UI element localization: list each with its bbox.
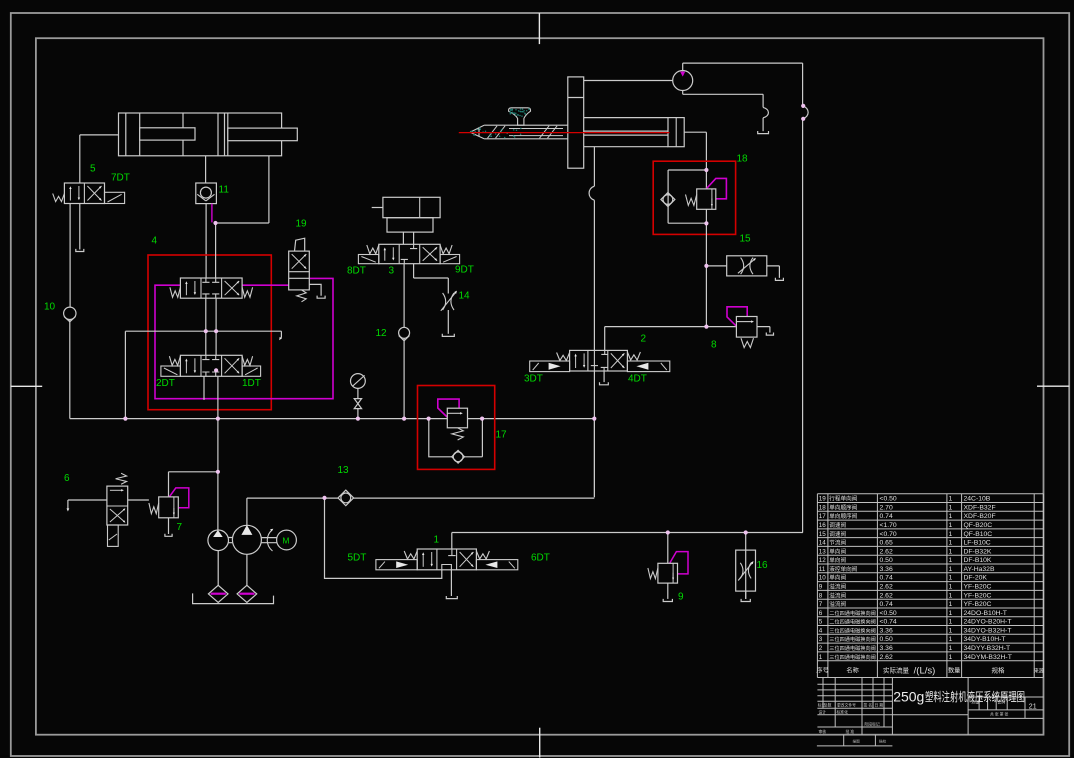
svg-text:三位四通电磁换向阀: 三位四通电磁换向阀 [829,644,876,652]
valve 4 upper left spring [170,287,181,297]
relief valve 9 body [658,563,678,583]
svg-text:实际流量: 实际流量 [883,666,910,675]
tank symbol below valve 5 [76,249,84,252]
svg-text:1: 1 [949,540,953,547]
valve 1 right spring [476,551,489,559]
wire through component 18 [705,170,707,266]
svg-text:7: 7 [819,601,823,608]
wire cylinder right port down [216,156,269,223]
svg-text:8: 8 [711,340,717,351]
relief valve 7 spring [149,503,159,514]
ejector cylinder body [383,197,440,217]
valve 3 solenoid 8DT tab [358,255,378,264]
svg-text:审核: 审核 [819,729,827,734]
svg-text:描校: 描校 [879,739,887,744]
relief valve 8 pilot line (magenta) [727,307,747,326]
svg-text:14: 14 [459,291,471,302]
oil motor drain to tank [683,91,763,108]
ejector cylinder rod [372,207,383,209]
svg-text:YF-B20C: YF-B20C [964,601,992,608]
svg-text:3.36: 3.36 [880,566,893,573]
svg-text:1: 1 [949,636,953,643]
svg-text:AY-Ha32B: AY-Ha32B [964,566,995,573]
valve 6 solenoid tab [108,525,119,546]
svg-text:1: 1 [819,654,823,661]
svg-text:XDF-B32F: XDF-B32F [964,504,996,511]
wire check valve 11 to valve 4 [205,204,207,278]
svg-text:更改文件号: 更改文件号 [837,702,856,707]
centerline tick right [1037,385,1069,387]
wire pilot cross line [125,331,281,418]
pump 2 (large) [232,525,261,554]
svg-text:7: 7 [177,522,183,533]
valve 4 lower solenoid 2DT tab [161,366,181,376]
centerline tick bottom [539,728,541,758]
screw flight hatching [488,126,498,138]
svg-text:比例: 比例 [998,700,1006,705]
wire valve 2 main line down [593,371,595,497]
valve 5 spring [53,194,65,202]
svg-text:1: 1 [949,619,953,626]
svg-text:1: 1 [434,535,440,546]
valve 2 right spring [627,352,640,360]
svg-text:阶段标记: 阶段标记 [865,722,880,727]
svg-text:液控单向阀: 液控单向阀 [829,565,857,573]
relief valve 17 pilot line (magenta) [438,399,459,417]
svg-text:日 期: 日 期 [875,702,884,707]
oil tank [193,593,274,603]
wire manifold to relief valve 8 [605,266,737,351]
svg-text:溢流阀: 溢流阀 [829,600,846,608]
svg-text:溢流阀: 溢流阀 [829,591,846,599]
svg-text:0.74: 0.74 [880,575,893,582]
relief valve 7 supply wire [169,472,218,497]
svg-text:4: 4 [152,236,158,247]
svg-text:3: 3 [389,266,395,277]
injection cylinder body [584,118,668,147]
svg-text:标准化: 标准化 [837,709,849,714]
svg-text:24DYO-B20H-T: 24DYO-B20H-T [964,619,1012,626]
hopper [509,108,531,125]
wire valve 3 A port to check valve 12 [403,264,405,328]
svg-text:三位四通电磁换向阀: 三位四通电磁换向阀 [829,653,876,661]
svg-text:12: 12 [819,557,827,564]
svg-text:250g: 250g [893,689,924,705]
svg-text:DF-20K: DF-20K [964,575,988,582]
svg-text:2: 2 [819,645,823,652]
svg-text:1: 1 [949,592,953,599]
relief valve 8 body [736,317,757,338]
valve 6 right port wire [128,499,149,501]
svg-text:6: 6 [819,610,823,617]
svg-text:2.70: 2.70 [880,504,893,511]
gauge isolator valve [357,388,359,398]
relief valve 9 pilot line (magenta) [670,552,688,574]
svg-text:5: 5 [90,164,96,175]
svg-text:9: 9 [819,584,823,591]
pressure gauge [351,374,366,389]
svg-text:16: 16 [819,522,827,529]
red highlight box component 4 [148,255,271,410]
svg-text:9: 9 [678,592,684,603]
relief valve 9 drain [667,583,669,599]
parts list table [817,494,1043,661]
check valve 10 [64,307,76,319]
title block grid [817,678,1043,735]
svg-text:0.65: 0.65 [880,540,893,547]
wire manifold junction to throttle 16 [745,533,747,551]
svg-text:<0.74: <0.74 [880,619,897,626]
suction filter 1 [208,585,228,602]
valve 6 left port drain [68,500,107,509]
injection screw barrel top [484,124,568,126]
svg-text:<0.70: <0.70 [880,531,897,538]
svg-text:序号: 序号 [816,667,828,675]
svg-text:QF-B10C: QF-B10C [964,531,993,538]
wire valve 4 lower drain stub [203,376,205,400]
injection screw barrel bottom [484,138,568,140]
valve 3 body 34DY directional valve [379,244,440,263]
svg-text:节流阀: 节流阀 [829,539,846,547]
relief valve 17 spring [452,428,463,440]
valve 4 lower solenoid 1DT tab [242,366,261,376]
clamping cylinder piston rod left [140,128,195,140]
wire pump 2 pressure line [247,497,594,499]
relief valve 9 spring [648,568,658,579]
centerline tick top [538,13,540,44]
svg-text:6DT: 6DT [531,553,550,564]
svg-text:24DO-B10H-T: 24DO-B10H-T [964,610,1007,617]
svg-text:0.74: 0.74 [880,513,893,520]
relief valve 8 drain [757,327,770,333]
svg-text:规格: 规格 [992,666,1006,675]
wire branch to valve 1 A port [325,498,442,579]
svg-text:6: 6 [64,473,70,484]
injection nozzle tip [470,125,484,139]
pilot line check valve 11 (magenta) [211,204,213,223]
screw root lines [509,129,563,136]
wire injection cylinder to valve 2 [593,147,595,187]
svg-text:/(L/s): /(L/s) [914,666,936,677]
svg-text:二位四通电磁换向阀: 二位四通电磁换向阀 [829,609,876,617]
svg-text:12: 12 [376,328,388,339]
svg-text:4DT: 4DT [628,374,647,385]
wire valve 1 T drain [450,570,452,596]
valve 1 body 34DYY directional valve [417,549,476,570]
svg-text:YF-B20C: YF-B20C [964,592,992,599]
svg-text:YF-B20C: YF-B20C [964,584,992,591]
wire valve 4 upper to lower interconnect [206,223,216,355]
valve 5 body 24D solenoid valve [64,183,104,204]
electric motor M [277,530,297,550]
wire main pressure manifold [70,418,595,420]
svg-text:2.62: 2.62 [880,584,893,591]
svg-text:15: 15 [740,234,752,245]
svg-text:1: 1 [949,531,953,538]
svg-text:34DYY-B32H-T: 34DYY-B32H-T [964,645,1011,652]
svg-text:3.36: 3.36 [880,645,893,652]
svg-text:1: 1 [949,575,953,582]
oil motor for screw rotation [673,71,693,91]
valve 1 left spring [404,551,417,559]
svg-text:1: 1 [949,610,953,617]
svg-text:9DT: 9DT [455,265,474,276]
screw shaft lines [568,131,668,135]
svg-text:处数: 处数 [824,702,832,707]
svg-text:二位四通电磁换向阀: 二位四通电磁换向阀 [829,618,876,626]
valve 2 body 34DYY directional valve [570,350,628,371]
svg-text:XDF-B20F: XDF-B20F [964,513,996,520]
svg-text:1: 1 [949,522,953,529]
svg-text:17: 17 [496,430,508,441]
wire cylinder left port to valve 5 [80,135,119,183]
svg-text:1: 1 [949,601,953,608]
valve 19 solenoid tab [295,238,305,251]
svg-text:1: 1 [949,654,953,661]
injection cylinder end cap [668,118,684,147]
svg-text:10: 10 [819,575,827,582]
front platen [568,77,584,168]
svg-text:1: 1 [949,557,953,564]
valve 4 upper right spring [242,287,253,297]
valve 2 tank drain [603,371,605,382]
pump suction lines [218,551,247,586]
svg-text:2: 2 [641,334,647,345]
svg-text:调速阀: 调速阀 [829,521,846,529]
svg-text:34DYM-B32H-T: 34DYM-B32H-T [964,654,1012,661]
valve 3 solenoid 9DT tab [440,255,460,264]
red highlight box component 17 [418,386,495,470]
red highlight box component 18 [653,161,735,234]
svg-text:10: 10 [44,302,56,313]
svg-text:34DYO-B32H-T: 34DYO-B32H-T [964,627,1012,634]
svg-text:调速阀: 调速阀 [829,530,846,538]
svg-text:单向阀: 单向阀 [829,547,846,555]
wire block to valve 3 [403,232,413,244]
valve 2 left spring [557,353,570,361]
svg-text:16: 16 [757,560,769,571]
svg-text:QF-B20C: QF-B20C [964,522,993,529]
sequence valve 18 pilot line (magenta) [707,178,727,198]
svg-text:1: 1 [949,627,953,634]
sequence valve 18 spring [686,195,697,206]
relief valve 7 drain [168,518,170,534]
wire valve 3 B port to throttle 14 [414,264,449,294]
crossover arc on right riser [803,106,809,119]
valve 4 upper 34DYM main directional valve [180,278,242,298]
svg-text:11: 11 [819,566,826,573]
svg-text:2.62: 2.62 [880,654,893,661]
sequence valve 18 body [697,189,716,209]
valve 2 proportional solenoid 4DT tab [627,361,669,372]
svg-text:1: 1 [949,548,953,555]
svg-text:单向阀: 单向阀 [829,556,846,564]
svg-text:<0.50: <0.50 [880,610,897,617]
check valve in component 18 [661,193,675,207]
pump 2 pressure riser [246,498,248,525]
pilot check valve 11 box [196,183,217,204]
flow valve 15 drain [767,266,780,278]
svg-text:签 名: 签 名 [864,702,873,707]
relief valve 7 body [159,497,179,518]
svg-text:3DT: 3DT [524,374,543,385]
wire pump 1 pressure riser [217,419,219,530]
svg-text:1: 1 [949,496,953,503]
svg-text:三位四通电磁换向阀: 三位四通电磁换向阀 [829,626,876,634]
svg-text:1: 1 [949,566,953,573]
valve 3 left spring [367,245,379,254]
svg-text:8DT: 8DT [347,266,366,277]
svg-text:11: 11 [219,185,230,196]
svg-text:13: 13 [338,465,350,476]
junction dots [213,221,217,225]
pump 1 (small) [208,530,229,551]
svg-text:共 张 第 张: 共 张 第 张 [990,712,1009,717]
svg-text:1DT: 1DT [242,378,261,389]
svg-text:5: 5 [819,619,823,626]
svg-text:3.36: 3.36 [880,627,893,634]
check valve 12 [399,327,410,338]
wire end cap to component 18 [684,132,706,170]
svg-text:2DT: 2DT [156,378,175,389]
bottom strip marks [817,735,893,746]
svg-text:24C-10B: 24C-10B [964,496,991,503]
svg-text:8: 8 [819,592,823,599]
valve 6 spring top [116,473,127,484]
magenta manifold enclosure component 4 [155,278,333,398]
check valve 13 [338,490,354,506]
svg-text:0.50: 0.50 [880,557,893,564]
svg-text:18: 18 [819,504,827,511]
hopper granule speckles [515,109,517,111]
component 18 bypass wire [668,170,706,223]
svg-text:LF-B10C: LF-B10C [964,540,991,547]
svg-text:1: 1 [949,513,953,520]
valve 1 proportional solenoid 6DT tab [476,560,517,570]
valve 1 proportional solenoid 5DT tab [376,560,417,570]
wire platen to oil motor [584,80,673,82]
svg-text:21: 21 [1029,703,1037,710]
svg-text:13: 13 [819,548,827,555]
wire oil motor top to right riser [683,63,803,71]
valve 4 lower 34DYM directional valve [180,355,242,376]
wire check valve 10 down to pressure manifold [69,320,71,419]
svg-text:1: 1 [949,584,953,591]
valve 6 body 24DO valve [107,486,128,525]
svg-text:来源: 来源 [1034,667,1045,675]
svg-text:行程单向阀: 行程单向阀 [829,495,857,503]
clamping cylinder body [119,113,282,156]
relief valve 7 pilot line (magenta) [169,488,189,508]
relief valve 8 spring [741,338,754,347]
wire cylinder left port down to check valve 11 [205,156,207,183]
svg-text:三位四通电磁换向阀: 三位四通电磁换向阀 [829,635,876,643]
check valve 17 bypass [429,418,483,456]
ejector cylinder mount block [387,218,433,232]
check valve 11 ball [200,187,211,198]
svg-text:14: 14 [819,540,827,547]
svg-text:名称: 名称 [846,667,858,675]
throttle valve 14 [443,293,446,310]
valve 5 solenoid 7DT tab [105,192,125,203]
valve 4 lower right spring [242,356,253,365]
rotation arrow arc [267,529,272,551]
svg-text:单向顺序阀: 单向顺序阀 [829,503,857,511]
wire valve 4 lower to pump line [217,376,219,418]
clamping cylinder piston rod right [228,128,297,141]
svg-text:DF-B10K: DF-B10K [964,557,992,564]
svg-text:7DT: 7DT [111,173,130,184]
svg-text:单向阀: 单向阀 [829,574,846,582]
svg-text:5DT: 5DT [348,553,367,564]
valve 19 body [289,251,310,290]
svg-text:溢流阀: 溢流阀 [829,583,846,591]
svg-text:18: 18 [737,154,749,165]
svg-text:M: M [282,536,289,546]
svg-text:批 准: 批 准 [846,729,855,734]
svg-text:19: 19 [296,219,308,230]
valve 4 lower left spring [169,356,180,365]
relief valve 17 body [447,408,467,428]
centerline tick left [11,385,42,387]
svg-text:0.50: 0.50 [880,636,893,643]
svg-text:设计: 设计 [819,709,827,714]
valve 2 proportional solenoid 3DT tab [530,361,570,372]
svg-text:质量: 质量 [972,700,980,705]
svg-text:单向顺序阀: 单向顺序阀 [829,512,857,520]
valve 3 right spring [440,245,452,254]
svg-text:<1.70: <1.70 [880,522,897,529]
svg-text:1: 1 [949,645,953,652]
right vertical return riser [802,63,804,106]
svg-text:17: 17 [819,513,827,520]
svg-text:2.62: 2.62 [880,548,893,555]
flow control valve 15 box [727,256,767,276]
suction filter 2 [237,585,257,602]
valve 19 drain to tank [309,284,321,295]
flow control valve 16 box [745,550,747,599]
svg-text:4: 4 [819,627,823,634]
wire valve 5 ports down [70,204,80,308]
svg-text:15: 15 [819,531,827,538]
svg-text:描图: 描图 [853,739,861,744]
svg-text:数量: 数量 [948,667,960,675]
svg-text:1: 1 [949,504,953,511]
svg-text:0.74: 0.74 [880,601,893,608]
svg-text:3: 3 [819,636,823,643]
svg-text:34DY-B10H-T: 34DY-B10H-T [964,636,1006,643]
svg-text:19: 19 [819,496,827,503]
valve 19 spring below [297,290,306,302]
drain hook right of component 4 [280,331,282,338]
wire to flow valve 15 [706,265,726,267]
svg-text:DF-B32K: DF-B32K [964,548,992,555]
wire manifold junction to relief valve 9 [667,533,669,564]
screw axis red line [459,132,670,134]
pump shaft [229,538,277,543]
svg-text:<0.50: <0.50 [880,496,897,503]
svg-text:2.62: 2.62 [880,592,893,599]
wire valve 1 P riser [452,533,803,550]
